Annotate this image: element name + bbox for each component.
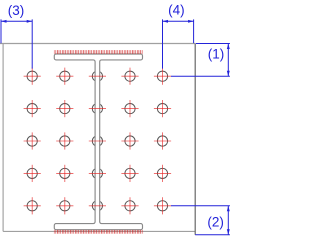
dimension (1) bottom extension line bbox=[171, 75, 230, 77]
hole r2c3 circle bbox=[92, 104, 102, 114]
hole r1c5 circle bbox=[157, 71, 167, 81]
hole r4c2 center mark bbox=[56, 165, 73, 182]
top weld hatch band bbox=[54, 50, 143, 54]
hole r3c4 center mark bbox=[121, 132, 138, 149]
plate bottom edge bbox=[3, 230, 195, 232]
hole r4c3 circle bbox=[92, 168, 102, 178]
hole r1c3 circle bbox=[92, 71, 102, 81]
svg-text:(4): (4) bbox=[168, 3, 185, 18]
hole r5c3 center mark (horizontal only, web covers vertical) bbox=[89, 205, 106, 207]
plate top edge bbox=[0, 43, 195, 45]
plate right edge bbox=[194, 44, 196, 235]
hole r2c1 circle bbox=[27, 104, 37, 114]
hole r4c5 center mark bbox=[154, 165, 171, 182]
hole r2c4 circle bbox=[125, 104, 135, 114]
hole r5c5 circle bbox=[157, 201, 167, 211]
hole r2c3 center mark (horizontal only, web covers vertical) bbox=[89, 108, 106, 110]
dimension (4) left extension line bbox=[162, 19, 164, 68]
hole r4c1 circle bbox=[27, 168, 37, 178]
hole r5c1 circle bbox=[27, 201, 37, 211]
dimension (3) right extension line bbox=[31, 19, 33, 68]
hole r1c2 center mark bbox=[56, 68, 73, 85]
hole r2c4 center mark bbox=[121, 100, 138, 117]
dimension (2) top extension line bbox=[171, 205, 230, 207]
hole r3c1 center mark bbox=[24, 132, 41, 149]
hole r1c2 circle bbox=[60, 71, 70, 81]
hole r5c2 circle bbox=[60, 201, 70, 211]
I-beam web cover (hides hole arcs under web) bbox=[95, 61, 101, 224]
hole r4c1 center mark bbox=[24, 165, 41, 182]
hole r3c3 center mark (horizontal only, web covers vertical) bbox=[89, 140, 106, 142]
hole r2c2 circle bbox=[60, 104, 70, 114]
hole r3c5 circle bbox=[157, 136, 167, 146]
hole r1c1 center mark bbox=[24, 68, 41, 85]
hole r2c5 center mark bbox=[154, 100, 171, 117]
hole r2c1 center mark bbox=[24, 100, 41, 117]
bottom weld hatch band bbox=[54, 230, 144, 234]
dimension (1) top extension line bbox=[196, 43, 230, 45]
hole r4c3 center mark (horizontal only, web covers vertical) bbox=[89, 172, 106, 174]
hole r3c4 circle bbox=[125, 136, 135, 146]
hole r3c2 circle bbox=[60, 136, 70, 146]
hole r5c2 center mark bbox=[56, 197, 73, 214]
hole r5c4 center mark bbox=[121, 197, 138, 214]
hole r3c1 circle bbox=[27, 136, 37, 146]
svg-text:(1): (1) bbox=[208, 46, 225, 61]
dimension (1) line with arrows bbox=[227, 44, 230, 77]
hole r4c4 center mark bbox=[121, 165, 138, 182]
hole r5c5 center mark bbox=[154, 197, 171, 214]
dimension (4) right extension line bbox=[193, 19, 195, 43]
dimension (3) line with arrows bbox=[1, 20, 32, 23]
hole r1c4 circle bbox=[125, 71, 135, 81]
hole r4c2 circle bbox=[60, 168, 70, 178]
hole r1c3 center mark (horizontal only, web covers vertical) bbox=[89, 75, 106, 77]
hole r3c2 center mark bbox=[56, 132, 73, 149]
hole r2c2 center mark bbox=[56, 100, 73, 117]
hole r5c3 circle bbox=[92, 201, 102, 211]
I-beam outline: top flange, web with root fillets, bottom flange bbox=[54, 54, 142, 230]
svg-text:(3): (3) bbox=[8, 3, 25, 18]
svg-text:(2): (2) bbox=[207, 214, 224, 229]
hole r5c4 circle bbox=[125, 201, 135, 211]
dimension (2) bottom extension line bbox=[195, 234, 230, 236]
hole r1c4 center mark bbox=[121, 68, 138, 85]
hole r1c1 circle bbox=[27, 71, 37, 81]
hole r3c3 circle bbox=[92, 136, 102, 146]
dimension (4) line with arrows bbox=[163, 20, 194, 23]
hole r1c5 center mark bbox=[154, 68, 171, 85]
plate left edge bbox=[2, 44, 4, 232]
dimension (3) left extension line bbox=[0, 19, 2, 43]
hole r3c5 center mark bbox=[154, 132, 171, 149]
hole r5c1 center mark bbox=[24, 197, 41, 214]
hole r2c5 circle bbox=[157, 104, 167, 114]
dimension (2) line with arrows bbox=[227, 206, 230, 235]
hole r4c5 circle bbox=[157, 168, 167, 178]
hole r4c4 circle bbox=[125, 168, 135, 178]
